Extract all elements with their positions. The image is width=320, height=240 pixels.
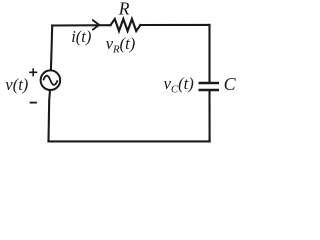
svg-text:vR(t): vR(t) xyxy=(106,34,136,56)
svg-text:C: C xyxy=(224,74,237,94)
svg-text:vC(t): vC(t) xyxy=(164,74,194,96)
svg-text:i(t): i(t) xyxy=(71,27,91,46)
svg-text:R: R xyxy=(118,0,130,19)
svg-text:v(t): v(t) xyxy=(5,75,28,94)
